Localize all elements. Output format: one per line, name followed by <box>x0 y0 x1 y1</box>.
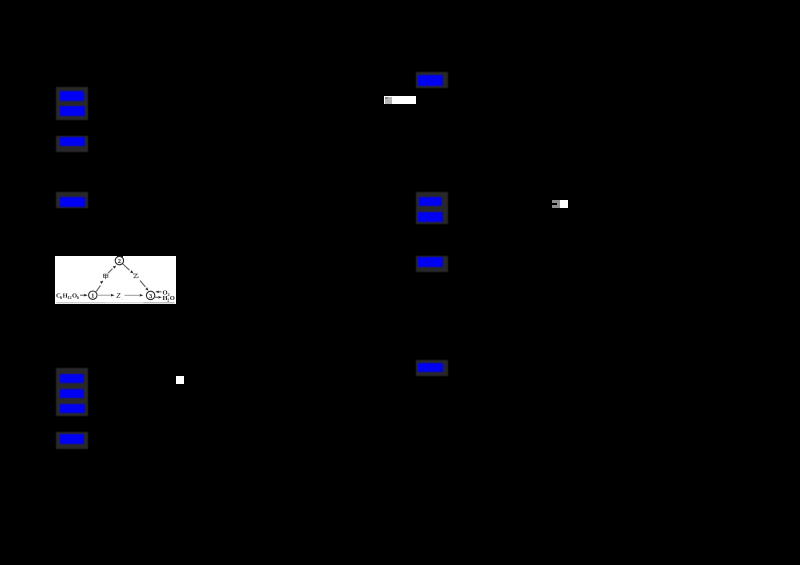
label yi (乙) <box>133 274 138 278</box>
left column highlight box A (two answer lines) <box>56 87 88 120</box>
node 2 circle <box>115 256 123 264</box>
left column highlight box E <box>56 432 88 449</box>
inline formula image: gray glyph + white square (right of box G) <box>552 200 560 208</box>
left column highlight box C <box>56 192 88 208</box>
bottom wire label Z to node 3 <box>125 294 140 296</box>
H2O output arrow from node 3 <box>155 296 158 298</box>
left column highlight box D (three answer lines) <box>56 368 88 416</box>
node 1 circle <box>89 291 97 299</box>
right column highlight box F <box>416 72 448 88</box>
respiration diagram image <box>55 256 176 304</box>
small white formula image (mid page) <box>176 376 184 384</box>
svg-text:O: O <box>170 295 175 302</box>
right column highlight box G (two answer lines) <box>416 192 448 224</box>
svg-text:2: 2 <box>118 258 121 265</box>
wire node1 up toward label jia <box>96 286 101 292</box>
O2 input arrow into node 3 <box>155 291 158 294</box>
right column highlight box H <box>416 256 448 272</box>
wire node 2 to label yi <box>123 264 130 271</box>
bottom wire node1 to mid arrow <box>97 294 111 296</box>
label jia (甲) <box>103 274 108 279</box>
right column highlight box I <box>416 360 448 376</box>
scan smudge at top edge <box>117 256 123 258</box>
arrow glucose to node 1 <box>80 294 85 296</box>
wire label jia to node 2 <box>108 269 113 274</box>
svg-text:6: 6 <box>77 295 79 300</box>
inline white formula image with gray glyph (right col, under box F) <box>384 96 416 105</box>
diagram white background <box>55 256 176 304</box>
node 3 circle <box>146 291 154 299</box>
svg-text:.: . <box>122 297 123 302</box>
wire label yi to node 3 <box>140 281 146 288</box>
svg-text:12: 12 <box>67 295 71 300</box>
svg-text:1: 1 <box>91 293 94 300</box>
left column highlight box B <box>56 136 88 152</box>
faint bottom scan line <box>57 302 107 303</box>
